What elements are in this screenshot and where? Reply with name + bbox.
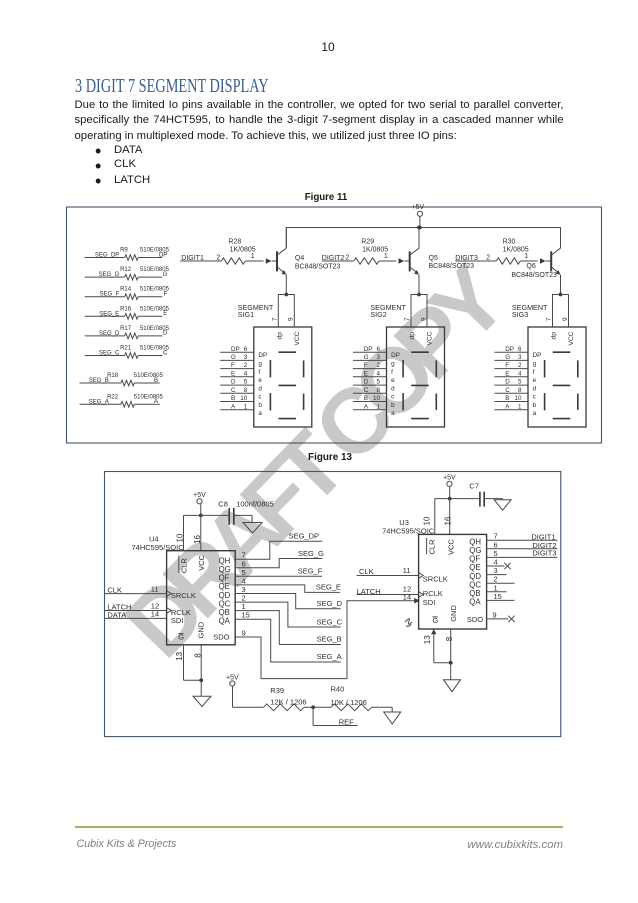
svg-text:SEG_F: SEG_F bbox=[298, 567, 323, 576]
svg-text:9: 9 bbox=[420, 317, 427, 321]
bullet LATCH bbox=[95, 171, 101, 192]
paragraph line 2 bbox=[75, 114, 564, 126]
transistor Q6 BC848/SOT23 bbox=[511, 228, 560, 295]
svg-text:DP: DP bbox=[391, 352, 400, 359]
svg-text:dp: dp bbox=[409, 332, 416, 340]
footer right text bbox=[75, 839, 564, 851]
svg-text:dp: dp bbox=[551, 332, 558, 340]
power +5V bbox=[411, 204, 424, 230]
svg-text:C: C bbox=[364, 387, 369, 394]
svg-text:DP: DP bbox=[533, 352, 542, 359]
svg-text:C: C bbox=[505, 387, 510, 394]
wire U4 VCC/CLR feed bbox=[184, 515, 229, 550]
svg-text:G: G bbox=[231, 354, 236, 361]
svg-text:SIG2: SIG2 bbox=[370, 310, 386, 319]
svg-text:SEG_B: SEG_B bbox=[317, 634, 342, 643]
svg-text:R40: R40 bbox=[331, 685, 345, 694]
svg-text:11: 11 bbox=[403, 566, 411, 575]
no-connect squiggle (U3 G pin) bbox=[405, 619, 412, 627]
svg-text:B: B bbox=[154, 378, 158, 384]
svg-text:e: e bbox=[533, 377, 537, 384]
svg-text:4: 4 bbox=[244, 370, 248, 377]
svg-text:VCC: VCC bbox=[294, 331, 301, 345]
svg-text:SEG_G: SEG_G bbox=[99, 272, 120, 278]
svg-text:R18: R18 bbox=[107, 373, 119, 379]
svg-text:d: d bbox=[533, 385, 537, 392]
svg-text:E: E bbox=[163, 311, 167, 317]
svg-text:f: f bbox=[391, 369, 393, 376]
svg-text:16: 16 bbox=[193, 535, 202, 544]
svg-text:SEG_D: SEG_D bbox=[317, 599, 343, 608]
svg-text:C7: C7 bbox=[469, 481, 479, 490]
svg-text:15: 15 bbox=[494, 592, 502, 601]
svg-text:SEG_A: SEG_A bbox=[317, 652, 342, 661]
wire U4 pin 7 to net SEG_DP bbox=[235, 532, 322, 560]
svg-text:6: 6 bbox=[244, 346, 248, 353]
wire U3 SDO (pin 9) no-connect bbox=[487, 610, 515, 622]
svg-text:DP: DP bbox=[364, 346, 373, 353]
svg-text:R39: R39 bbox=[270, 686, 284, 695]
svg-text:SEG_G: SEG_G bbox=[298, 549, 324, 558]
svg-text:BC848/SOT23: BC848/SOT23 bbox=[429, 263, 475, 270]
svg-text:2: 2 bbox=[244, 362, 248, 369]
svg-text:Q5: Q5 bbox=[429, 255, 438, 262]
svg-text:b: b bbox=[391, 402, 395, 409]
svg-text:1: 1 bbox=[524, 253, 528, 260]
resistor R16 (SEG_E) bbox=[85, 306, 170, 319]
resistor R17 (SEG_D) bbox=[85, 326, 170, 339]
svg-text:1: 1 bbox=[384, 253, 388, 260]
node LATCH (U3 pin 12) bbox=[357, 585, 419, 596]
wire U3 pin 2 stub bbox=[487, 575, 515, 584]
svg-text:8: 8 bbox=[445, 636, 454, 641]
resistor R14 (SEG_F) bbox=[85, 287, 170, 300]
FIGURE 11 SCHEMATIC bbox=[0, 195, 638, 450]
svg-text:9: 9 bbox=[562, 317, 569, 321]
svg-text:a: a bbox=[391, 410, 395, 417]
node CLK (U4 pin 11) bbox=[105, 585, 167, 595]
svg-text:2: 2 bbox=[518, 362, 522, 369]
node DIGIT3 bbox=[455, 255, 490, 262]
svg-text:CLK: CLK bbox=[359, 567, 374, 576]
svg-text:3: 3 bbox=[244, 354, 248, 361]
svg-text:5: 5 bbox=[244, 379, 248, 386]
svg-text:c: c bbox=[258, 394, 261, 401]
ground (C8) bbox=[243, 515, 262, 533]
svg-text:7: 7 bbox=[546, 317, 553, 321]
svg-text:F: F bbox=[505, 362, 509, 369]
power +5V (divider) bbox=[226, 675, 264, 708]
svg-text:R17: R17 bbox=[120, 326, 132, 332]
transistor Q5 BC848/SOT23 bbox=[399, 228, 475, 295]
svg-text:10: 10 bbox=[240, 395, 248, 402]
svg-text:SEG_C: SEG_C bbox=[99, 351, 120, 357]
svg-text:c: c bbox=[391, 394, 394, 401]
node CLK (U3 pin 11) bbox=[357, 566, 419, 576]
figure 13 border frame bbox=[105, 472, 561, 737]
svg-text:R29: R29 bbox=[361, 239, 374, 246]
power +5V (U4) bbox=[193, 492, 206, 517]
svg-text:1: 1 bbox=[376, 403, 380, 410]
svg-text:DP: DP bbox=[258, 352, 267, 359]
resistor R18 (SEG_B) bbox=[80, 373, 164, 386]
ground (R40) bbox=[384, 707, 401, 724]
junction R39/R40 bbox=[311, 705, 315, 709]
svg-text:10: 10 bbox=[373, 395, 381, 402]
svg-text:D: D bbox=[163, 331, 168, 337]
wire U4 SDO (pin 9) to U3 SDI bbox=[235, 598, 420, 679]
svg-text:A: A bbox=[154, 399, 158, 405]
svg-text:SRCLK: SRCLK bbox=[423, 574, 448, 583]
svg-text:9: 9 bbox=[288, 317, 295, 321]
resistor R9 (SEG_DP) bbox=[85, 248, 170, 261]
wire U4 pin 5 to net SEG_F bbox=[235, 567, 323, 577]
svg-text:G: G bbox=[364, 354, 369, 361]
svg-text:R22: R22 bbox=[107, 394, 119, 400]
7-segment display SIG3 bbox=[494, 293, 586, 427]
svg-text:4: 4 bbox=[376, 370, 380, 377]
svg-text:10: 10 bbox=[423, 516, 432, 525]
7-segment display SIG1 bbox=[220, 293, 312, 427]
svg-text:7: 7 bbox=[404, 317, 411, 321]
wire U3 pin 4 no-connect bbox=[487, 558, 511, 570]
svg-text:13: 13 bbox=[175, 651, 184, 660]
svg-text:+5V: +5V bbox=[411, 204, 424, 211]
ground (C7) bbox=[494, 499, 511, 511]
svg-text:g: g bbox=[533, 361, 537, 368]
svg-text:13: 13 bbox=[423, 635, 432, 644]
svg-text:F: F bbox=[164, 292, 168, 298]
svg-text:SEG_D: SEG_D bbox=[99, 331, 120, 337]
svg-text:Q4: Q4 bbox=[295, 255, 304, 262]
svg-text:f: f bbox=[258, 369, 260, 376]
svg-text:DP: DP bbox=[159, 252, 167, 258]
footer left text bbox=[77, 838, 177, 850]
svg-text:SEG_F: SEG_F bbox=[100, 292, 120, 298]
heading bbox=[75, 75, 269, 98]
svg-text:74HC595/SOIC: 74HC595/SOIC bbox=[382, 526, 435, 535]
svg-text:SIG3: SIG3 bbox=[512, 310, 528, 319]
svg-text:F: F bbox=[364, 362, 368, 369]
svg-text:B: B bbox=[231, 395, 235, 402]
wire U3 VCC/CLR feed bbox=[435, 499, 480, 535]
svg-text:5: 5 bbox=[518, 379, 522, 386]
svg-text:1: 1 bbox=[251, 253, 255, 260]
junction +5V rail / Q5 collector bbox=[417, 226, 421, 230]
wire U4 pin 1 to net SEG_B bbox=[235, 602, 341, 644]
svg-text:14: 14 bbox=[403, 593, 411, 602]
node DATA (U4 pin 14) bbox=[105, 609, 167, 619]
svg-text:SDI: SDI bbox=[423, 598, 436, 607]
svg-text:5: 5 bbox=[376, 379, 380, 386]
svg-text:SIG1: SIG1 bbox=[238, 310, 254, 319]
svg-text:SDO: SDO bbox=[213, 633, 229, 642]
svg-text:100nf/0805: 100nf/0805 bbox=[236, 500, 274, 509]
resistor R28 1K/0805 bbox=[180, 239, 264, 265]
svg-text:6: 6 bbox=[376, 346, 380, 353]
svg-text:E: E bbox=[505, 370, 509, 377]
svg-text:C: C bbox=[163, 350, 168, 356]
svg-text:f: f bbox=[533, 369, 535, 376]
svg-text:9: 9 bbox=[242, 629, 246, 638]
svg-text:SEG_DP: SEG_DP bbox=[95, 253, 119, 259]
ground (U3) bbox=[431, 629, 460, 692]
svg-text:a: a bbox=[258, 410, 262, 417]
svg-text:d: d bbox=[258, 385, 262, 392]
svg-text:E: E bbox=[364, 370, 368, 377]
paragraph line 3 bbox=[75, 130, 564, 142]
resistor R22 (SEG_A) bbox=[80, 394, 164, 407]
svg-text:REF: REF bbox=[339, 718, 354, 727]
svg-text:11: 11 bbox=[151, 585, 159, 594]
svg-text:SEG_E: SEG_E bbox=[316, 583, 341, 592]
wire U4 pin 2 to net SEG_C bbox=[235, 594, 342, 627]
svg-text:+5V: +5V bbox=[443, 475, 456, 482]
svg-text:R30: R30 bbox=[503, 239, 516, 246]
svg-text:QA: QA bbox=[219, 617, 231, 626]
svg-text:6: 6 bbox=[518, 346, 522, 353]
wire U4 pin 6 to net SEG_G bbox=[235, 549, 324, 568]
7-segment display SIG2 bbox=[353, 293, 445, 427]
Figure 11 caption bbox=[0, 192, 638, 203]
node DIGIT1 bbox=[181, 255, 220, 262]
wire U4 pin 4 to net SEG_E bbox=[235, 576, 341, 592]
svg-text:R28: R28 bbox=[228, 239, 241, 246]
svg-text:R12: R12 bbox=[120, 267, 132, 273]
svg-text:BC848/SOT23: BC848/SOT23 bbox=[295, 264, 341, 271]
svg-text:16: 16 bbox=[444, 516, 453, 525]
wire U3 pin 15 stub bbox=[487, 592, 515, 601]
svg-text:BC848/SOT23: BC848/SOT23 bbox=[511, 272, 557, 279]
svg-text:a: a bbox=[533, 410, 537, 417]
svg-text:VCC: VCC bbox=[568, 331, 575, 345]
svg-text:1: 1 bbox=[244, 403, 248, 410]
svg-text:DP: DP bbox=[505, 346, 514, 353]
wire U3 pin 5 to net DIGIT3 bbox=[487, 548, 558, 558]
svg-text:C: C bbox=[231, 387, 236, 394]
svg-text:g: g bbox=[258, 361, 262, 368]
svg-text:SEG_A: SEG_A bbox=[89, 399, 109, 405]
svg-text:SRCLK: SRCLK bbox=[171, 591, 196, 600]
svg-text:e: e bbox=[258, 377, 262, 384]
svg-text:b: b bbox=[258, 402, 262, 409]
wire U3 pin 7 to net DIGIT1 bbox=[487, 532, 558, 542]
svg-text:CLR: CLR bbox=[427, 539, 436, 555]
svg-text:VCC: VCC bbox=[197, 554, 206, 570]
svg-text:CLK: CLK bbox=[107, 585, 122, 594]
power +5V (U3) bbox=[443, 475, 456, 501]
op IC U4 74HC595/SOIC bbox=[132, 533, 236, 661]
svg-text:GND: GND bbox=[197, 621, 206, 638]
bullet CLK bbox=[95, 156, 101, 177]
svg-text:510E/0805: 510E/0805 bbox=[134, 394, 164, 400]
node LATCH (U4 pin 12) bbox=[105, 601, 167, 611]
svg-text:15: 15 bbox=[242, 611, 250, 620]
paragraph line 1 bbox=[75, 99, 564, 111]
wire U4 pin 3 to net SEG_D bbox=[235, 585, 342, 609]
page number bbox=[0, 40, 638, 54]
svg-text:e: e bbox=[391, 377, 395, 384]
svg-text:g: g bbox=[391, 361, 395, 368]
svg-text:E: E bbox=[231, 370, 235, 377]
footer rule bbox=[75, 826, 564, 828]
svg-text:9: 9 bbox=[492, 610, 496, 619]
svg-text:7: 7 bbox=[271, 317, 278, 321]
svg-text:10: 10 bbox=[175, 533, 184, 542]
bullet DATA bbox=[95, 141, 101, 162]
svg-text:R14: R14 bbox=[120, 287, 132, 293]
svg-text:D: D bbox=[505, 379, 510, 386]
svg-text:SDO: SDO bbox=[467, 615, 483, 624]
svg-text:G: G bbox=[163, 272, 168, 278]
svg-text:Q6: Q6 bbox=[526, 263, 535, 270]
capacitor C7 bbox=[469, 481, 502, 506]
svg-text:8: 8 bbox=[244, 387, 248, 394]
svg-text:R9: R9 bbox=[120, 248, 128, 254]
svg-text:3: 3 bbox=[376, 354, 380, 361]
svg-text:GND: GND bbox=[449, 605, 458, 622]
wire U4 pin 15 to net SEG_A bbox=[235, 611, 341, 662]
svg-text:F: F bbox=[231, 362, 235, 369]
svg-text:3: 3 bbox=[518, 354, 522, 361]
svg-text:CLR: CLR bbox=[180, 558, 189, 574]
svg-text:VCC: VCC bbox=[427, 331, 434, 345]
svg-text:D: D bbox=[364, 379, 369, 386]
wire U3 pin 6 to net DIGIT2 bbox=[487, 540, 558, 550]
resistor R40 10K/1206 bbox=[331, 685, 393, 711]
svg-text:SEG_E: SEG_E bbox=[99, 311, 119, 317]
svg-text:D: D bbox=[231, 379, 236, 386]
svg-text:C8: C8 bbox=[218, 500, 228, 509]
figure 11 border frame bbox=[67, 207, 602, 443]
resistor R29 1K/0805 bbox=[322, 239, 396, 265]
resistor R12 (SEG_G) bbox=[85, 267, 170, 280]
wire U3 pin 1 stub bbox=[487, 583, 507, 592]
svg-text:14: 14 bbox=[151, 609, 159, 618]
svg-text:4: 4 bbox=[518, 370, 522, 377]
op IC U3 74HC595/SOIC bbox=[382, 516, 487, 644]
svg-text:R21: R21 bbox=[120, 346, 132, 352]
svg-text:d: d bbox=[391, 385, 395, 392]
Figure 13 caption bbox=[0, 452, 638, 463]
wire +5V rail bbox=[286, 228, 560, 249]
svg-text:VCC: VCC bbox=[446, 539, 455, 555]
svg-text:74HC595/SOIC: 74HC595/SOIC bbox=[132, 543, 185, 552]
svg-text:c: c bbox=[533, 394, 536, 401]
node DIGIT2 bbox=[322, 255, 350, 262]
resistor R39 12K/1206 bbox=[264, 686, 332, 711]
svg-text:+5V: +5V bbox=[193, 492, 206, 499]
svg-text:DIGIT3: DIGIT3 bbox=[532, 548, 556, 557]
svg-text:8: 8 bbox=[376, 387, 380, 394]
svg-text:QA: QA bbox=[469, 598, 481, 607]
svg-text:10K / 1206: 10K / 1206 bbox=[331, 698, 367, 707]
svg-text:1: 1 bbox=[518, 403, 522, 410]
svg-text:SEG_DP: SEG_DP bbox=[289, 532, 319, 541]
svg-text:SEG_B: SEG_B bbox=[89, 378, 109, 384]
svg-text:10: 10 bbox=[514, 395, 522, 402]
svg-text:B: B bbox=[364, 395, 368, 402]
node REF bbox=[313, 707, 357, 726]
svg-text:R16: R16 bbox=[120, 306, 132, 312]
wire U3 pin 3 stub bbox=[487, 566, 507, 575]
svg-text:8: 8 bbox=[518, 387, 522, 394]
svg-text:2: 2 bbox=[376, 362, 380, 369]
svg-text:b: b bbox=[533, 402, 537, 409]
resistor R30 1K/0805 bbox=[455, 239, 537, 265]
svg-text:12K / 1206: 12K / 1206 bbox=[270, 697, 306, 706]
svg-text:G: G bbox=[505, 354, 510, 361]
ground (U4) bbox=[184, 645, 212, 707]
svg-text:U4: U4 bbox=[149, 534, 159, 543]
transistor Q4 BC848/SOT23 bbox=[266, 228, 341, 295]
svg-text:B: B bbox=[505, 395, 509, 402]
svg-text:dp: dp bbox=[277, 332, 284, 340]
capacitor C8 100nf/0805 bbox=[218, 500, 273, 525]
svg-text:SEG_C: SEG_C bbox=[317, 618, 343, 627]
svg-text:SDI: SDI bbox=[171, 616, 184, 625]
svg-text:DP: DP bbox=[231, 346, 240, 353]
FIGURE 13 SCHEMATIC bbox=[0, 460, 638, 750]
resistor R21 (SEG_C) bbox=[85, 346, 170, 359]
svg-text:510E/0805: 510E/0805 bbox=[134, 373, 164, 379]
